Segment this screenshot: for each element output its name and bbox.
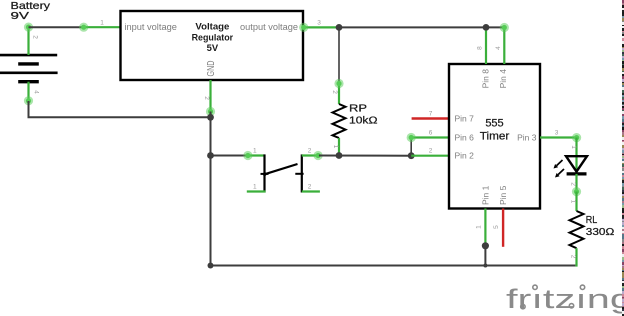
pin number 1 (555 pin1) — [476, 225, 483, 229]
switch S1 pin 1 top lead — [243, 151, 264, 160]
pin number 2 (RP top) — [331, 90, 338, 94]
RL top pin lead — [575, 192, 577, 212]
RL value label — [586, 214, 615, 238]
555 pin 3 lead — [540, 133, 581, 142]
pin number 1 (input) — [100, 20, 104, 27]
555 pin 7 red stub — [412, 117, 449, 119]
LED D1 — [566, 156, 587, 174]
regulator GND pin lead — [206, 80, 215, 116]
svg-text:9V: 9V — [11, 10, 30, 22]
vertical ground rail wire — [210, 112, 212, 266]
svg-text:1: 1 — [570, 200, 577, 204]
svg-text:Pin 6: Pin 6 — [455, 133, 475, 143]
svg-text:Pin 4: Pin 4 — [498, 69, 508, 89]
LED cathode lead — [572, 174, 581, 196]
svg-text:Voltage: Voltage — [195, 22, 229, 32]
svg-text:5: 5 — [493, 225, 500, 229]
wire pin1 to bottom rail — [484, 246, 486, 266]
svg-text:Pin 7: Pin 7 — [455, 114, 475, 124]
fritzing watermark — [506, 284, 624, 314]
pin number 7 — [429, 111, 433, 118]
svg-text:2: 2 — [570, 255, 577, 259]
svg-text:330Ω: 330Ω — [586, 226, 615, 238]
wire switch to RP junction — [319, 155, 411, 157]
junction node RP bottom — [336, 152, 343, 159]
pin number 3 (output) — [317, 20, 321, 27]
svg-text:2: 2 — [429, 148, 433, 155]
junction node GND rail top — [207, 114, 214, 121]
555 pin 1 lead — [484, 209, 486, 246]
resistor RL zigzag — [570, 211, 584, 248]
pin number 1 (RP bottom) — [332, 145, 339, 149]
pin number 2 (GND) — [203, 96, 210, 100]
junction node at pin8 — [483, 24, 490, 31]
svg-text:Timer: Timer — [480, 131, 510, 143]
resistor RP zigzag — [333, 104, 346, 138]
svg-text:8: 8 — [477, 46, 484, 50]
junction node bottom left — [208, 263, 214, 269]
wire up from pin2 junction to pin6 lead — [410, 138, 412, 156]
svg-text:output voltage: output voltage — [240, 22, 298, 32]
svg-text:1: 1 — [332, 145, 339, 149]
RP top pin lead — [334, 79, 343, 104]
wire pin3 down to LED — [575, 138, 577, 157]
pin number 4 — [495, 46, 502, 50]
pin number 5 — [493, 225, 500, 229]
svg-text:2: 2 — [570, 182, 577, 186]
svg-text:1: 1 — [253, 148, 257, 155]
wire switch row left — [211, 155, 248, 157]
pin number 8 — [477, 46, 484, 50]
RP value label — [349, 103, 378, 127]
battery label Battery 9V — [11, 0, 51, 22]
svg-text:input voltage: input voltage — [124, 22, 176, 32]
regulator input voltage pin lead — [79, 23, 120, 32]
RL bottom pin lead — [575, 248, 577, 266]
bottom ground rail wire — [211, 265, 576, 267]
pin number 1 (RL top) — [570, 200, 577, 204]
svg-text:5V: 5V — [207, 43, 219, 53]
RP bottom pin lead — [338, 138, 340, 156]
wire output to pin4 corner — [339, 26, 504, 28]
junction node switch row — [207, 152, 214, 159]
pin number 3 (555 pin3) — [555, 130, 559, 137]
555 timer U1 box — [449, 64, 540, 209]
pin number 2 (RL bottom) — [570, 255, 577, 259]
pin number 1 (switch top left) — [253, 148, 257, 155]
svg-text:6: 6 — [429, 130, 433, 137]
svg-text:2: 2 — [308, 148, 312, 155]
555 pin 4 lead — [500, 23, 509, 64]
555 pin 8 lead — [485, 31, 487, 65]
svg-text:Pin 2: Pin 2 — [455, 151, 475, 161]
svg-text:1: 1 — [100, 20, 104, 27]
svg-text:4: 4 — [33, 90, 40, 94]
svg-text:4: 4 — [495, 46, 502, 50]
junction node pin2/pin6 — [408, 152, 415, 159]
pin number 1 (switch bottom left) — [253, 184, 257, 191]
pin number 6 — [429, 130, 433, 137]
svg-text:frıtzıng: frıtzıng — [506, 284, 624, 314]
svg-text:Pin 5: Pin 5 — [498, 185, 508, 205]
svg-text:1: 1 — [570, 145, 577, 149]
svg-text:2: 2 — [308, 184, 312, 191]
svg-text:RL: RL — [586, 214, 598, 226]
battery BT1 — [0, 55, 58, 82]
junction node pin1 bottom rail — [483, 264, 487, 268]
wire down to RP — [338, 27, 340, 83]
svg-text:3: 3 — [317, 20, 321, 27]
svg-text:2: 2 — [32, 35, 39, 39]
svg-text:Regulator: Regulator — [192, 32, 234, 42]
svg-text:2: 2 — [331, 90, 338, 94]
switch S1 pin 1 bottom stub — [247, 190, 266, 192]
junction node pin1 wire start — [482, 242, 489, 249]
pin number 2 (battery +) — [32, 35, 39, 39]
svg-text:1: 1 — [253, 184, 257, 191]
555 pin 6 lead — [407, 133, 449, 142]
pin number 2 (switch bottom right) — [308, 184, 312, 191]
svg-text:Pin 8: Pin 8 — [481, 69, 491, 89]
555 pin 5 red stub — [502, 209, 504, 247]
switch S1 body — [261, 154, 304, 192]
battery plus pin lead — [24, 23, 33, 56]
voltage regulator U2 box — [121, 11, 304, 80]
switch S1 pin 2 top lead — [302, 151, 323, 160]
svg-text:555: 555 — [485, 118, 503, 130]
pin number 2 (LED cathode) — [570, 182, 577, 186]
wire battery- down and to rail — [28, 101, 211, 117]
svg-text:Pin 3: Pin 3 — [517, 133, 537, 143]
pin number 4 (battery -) — [33, 90, 40, 94]
LED light arrows — [554, 160, 565, 178]
right edge noise column — [622, 0, 624, 316]
svg-text:Pin 1: Pin 1 — [481, 185, 491, 205]
svg-text:7: 7 — [429, 111, 433, 118]
switch S1 pin 2 bottom stub — [302, 190, 320, 192]
wire battery+ to regulator input — [29, 26, 84, 28]
pin number 1 (LED anode) — [570, 145, 577, 149]
pin number 2 (555 pin2) — [429, 148, 433, 155]
svg-text:10kΩ: 10kΩ — [349, 115, 378, 127]
regulator output voltage pin lead — [299, 23, 339, 32]
junction node at output wire / RP — [336, 24, 343, 31]
svg-text:3: 3 — [555, 130, 559, 137]
svg-text:1: 1 — [476, 225, 483, 229]
battery minus pin lead — [24, 82, 33, 106]
pin number 2 (switch top right) — [308, 148, 312, 155]
svg-text:GND: GND — [206, 61, 217, 77]
svg-text:RP: RP — [349, 103, 367, 115]
555 pin 2 lead — [411, 155, 449, 157]
svg-text:2: 2 — [203, 96, 210, 100]
